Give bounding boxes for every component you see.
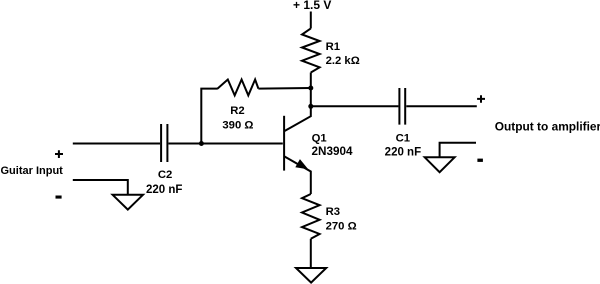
ground input — [113, 195, 143, 210]
wire junction to output node — [310, 88, 312, 106]
ground emitter — [296, 268, 326, 283]
wire guitar input + to C2 — [73, 143, 160, 145]
svg-text:C2: C2 — [158, 169, 172, 181]
node R2-collector junction — [308, 86, 313, 91]
svg-text:Guitar Input: Guitar Input — [1, 165, 64, 177]
svg-text:C1: C1 — [396, 132, 410, 144]
svg-text:2N3904: 2N3904 — [312, 145, 353, 158]
plus mark output — [477, 95, 485, 103]
resistor R2 — [218, 80, 259, 96]
resistor R3 — [302, 194, 320, 239]
svg-text:+ 1.5 V: + 1.5 V — [293, 0, 331, 12]
wire R1 to collector node — [310, 73, 312, 89]
capacitor C2 — [161, 124, 167, 162]
wire C2 to base — [169, 143, 283, 145]
svg-text:R3: R3 — [326, 206, 340, 218]
transistor Q1 emitter lead — [284, 156, 311, 194]
resistor R1 — [302, 28, 320, 72]
minus mark output — [477, 159, 483, 162]
transistor Q1 collector lead — [284, 106, 311, 131]
wire R2 to collector node — [258, 87, 310, 90]
wire base node up to R2 — [201, 89, 218, 144]
node base junction — [199, 141, 204, 146]
svg-text:270 Ω: 270 Ω — [326, 221, 357, 233]
wire guitar input - to ground — [73, 180, 128, 195]
wire output node to C1 — [311, 105, 399, 107]
svg-text:2.2 kΩ: 2.2 kΩ — [326, 55, 360, 67]
capacitor C1 — [399, 88, 405, 125]
svg-text:R1: R1 — [326, 41, 340, 53]
svg-text:220 nF: 220 nF — [146, 184, 182, 196]
ground output — [425, 157, 455, 172]
wire supply to R1 — [310, 12, 312, 29]
wire R3 to ground — [310, 239, 312, 268]
plus mark input — [55, 150, 63, 158]
svg-text:390 Ω: 390 Ω — [222, 119, 253, 131]
wire C1 to output + — [406, 105, 477, 107]
transistor Q1 base bar — [283, 116, 285, 171]
svg-text:Output to amplifier: Output to amplifier — [495, 120, 600, 134]
svg-text:220 nF: 220 nF — [385, 147, 421, 159]
minus mark input — [56, 196, 62, 199]
svg-text:Q1: Q1 — [312, 133, 327, 145]
node collector-output junction — [308, 104, 313, 109]
svg-text:R2: R2 — [230, 105, 244, 117]
wire output - to ground — [440, 143, 476, 158]
transistor Q1 emitter arrow — [297, 160, 307, 168]
